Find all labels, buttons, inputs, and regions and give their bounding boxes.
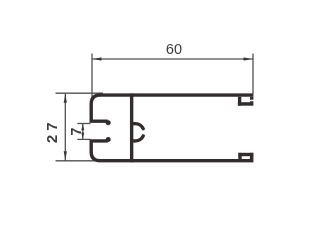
svg-text:7: 7 xyxy=(69,128,85,136)
svg-text:60: 60 xyxy=(166,42,182,58)
svg-text:27: 27 xyxy=(44,118,61,143)
